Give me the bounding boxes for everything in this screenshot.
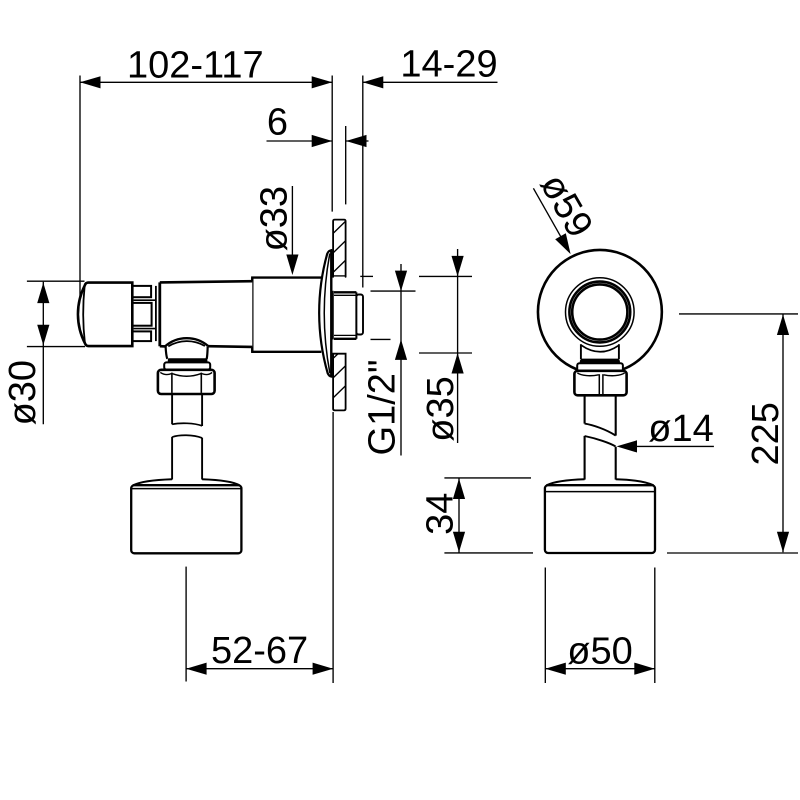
body ring circle (569, 282, 630, 343)
svg-text:ø35: ø35 (420, 376, 462, 441)
dimension dia33 (253, 186, 298, 275)
pipe upper segment right view (585, 395, 616, 435)
svg-text:6: 6 (267, 102, 288, 144)
escutcheon (wall flange) side profile (319, 250, 331, 376)
extension line thread end (362, 76, 364, 288)
wall section lower (hatched) (333, 354, 346, 411)
escutcheon front circle dia59 (538, 250, 662, 374)
dimension 225 (667, 314, 798, 553)
outlet pipe upper segment (172, 394, 202, 426)
svg-text:ø30: ø30 (2, 360, 44, 425)
svg-text:102-117: 102-117 (127, 45, 264, 87)
outlet socket cylinder right view (545, 479, 655, 553)
outlet socket cylinder left view (131, 479, 241, 553)
pipe lower segment right view (585, 436, 616, 480)
svg-text:ø14: ø14 (648, 408, 713, 450)
dimension G1/2 thread (362, 264, 416, 456)
outlet pipe lower segment (172, 435, 202, 479)
outlet saddle arc (581, 345, 619, 352)
valve bonnet ribs (133, 286, 156, 341)
valve handle knob (78, 283, 132, 347)
body ring outer circle (566, 278, 635, 347)
compression nut left view (158, 370, 215, 394)
svg-text:ø33: ø33 (253, 186, 295, 251)
seal ring (black band) (168, 358, 208, 362)
washer right view (577, 363, 623, 371)
washer below elbow (164, 362, 210, 369)
outlet collar (581, 344, 619, 359)
svg-text:225: 225 (745, 402, 787, 465)
extension line wall back (345, 126, 347, 204)
svg-text:52-67: 52-67 (211, 630, 308, 672)
dimension dia35 (360, 249, 472, 443)
svg-text:14-29: 14-29 (400, 44, 497, 86)
dimension 102-117 (80, 45, 332, 300)
dimension dia14 (617, 408, 714, 453)
svg-text:ø50: ø50 (567, 630, 632, 672)
valve body main tube (160, 278, 253, 352)
elbow arch (165, 338, 208, 359)
extension line wall face (331, 76, 333, 212)
dimension dia59 (532, 167, 601, 254)
dimension 6 (267, 102, 369, 148)
seal ring right view (580, 360, 620, 364)
compression nut right view (574, 371, 626, 396)
svg-text:G1/2": G1/2" (362, 360, 404, 456)
thread G1/2 male (334, 292, 363, 339)
valve body sleeve dia35 (252, 278, 321, 352)
wall section upper (hatched) (333, 220, 346, 277)
svg-text:34: 34 (420, 493, 462, 535)
dimension 52-67 (186, 412, 333, 683)
dimension dia50 (545, 568, 655, 684)
body ring inner circle (572, 284, 627, 339)
wall edge line continuing down (332, 291, 334, 340)
dimension 34 (420, 478, 533, 553)
dimension 14-29 (363, 44, 498, 89)
dimension dia30 (2, 281, 85, 425)
